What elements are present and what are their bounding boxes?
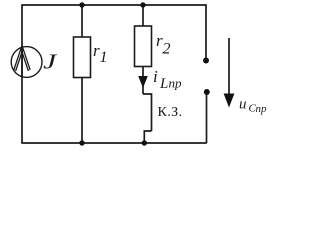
svg-text:2: 2 [163,41,171,58]
terminal upper [203,58,209,64]
wire short-circuit jog top [143,94,152,131]
resistor r2 [135,26,152,67]
node bottom of r1 [79,140,84,145]
current arrow i_Lpr [138,76,148,88]
svg-text:пр: пр [169,76,183,91]
terminal lower [204,89,210,95]
voltage arrow u_Cpr head [224,94,235,108]
node bottom of short-circuit branch [142,140,147,145]
wire right upper [205,5,207,60]
current source J circle [11,47,42,78]
wire r2 top stub [142,5,144,27]
wire r1 branch [81,5,83,38]
wire top [21,4,207,6]
current source J arrow shaft [21,47,23,77]
current source J arrowhead outer chevron [14,46,30,71]
svg-text:u: u [239,97,247,113]
wire bottom [21,142,207,144]
node top of r2 [140,2,145,7]
svg-text:i: i [153,67,158,86]
voltage arrow u_Cpr shaft [228,38,230,95]
wire r1 bottom stub [81,78,83,144]
svg-text:пр: пр [256,103,268,115]
svg-text:J: J [43,50,58,74]
wire short-circuit jog bottom [144,131,151,143]
resistor r1 [74,37,91,78]
svg-text:1: 1 [100,49,108,66]
svg-text:L: L [159,76,168,92]
svg-text:К.З.: К.З. [158,105,183,120]
wire r2 bottom stub [142,67,144,95]
wire left branch [21,5,23,143]
node top of r1 [79,2,84,7]
current source J arrowhead inner chevron [16,52,29,71]
wire right lower [206,92,208,143]
